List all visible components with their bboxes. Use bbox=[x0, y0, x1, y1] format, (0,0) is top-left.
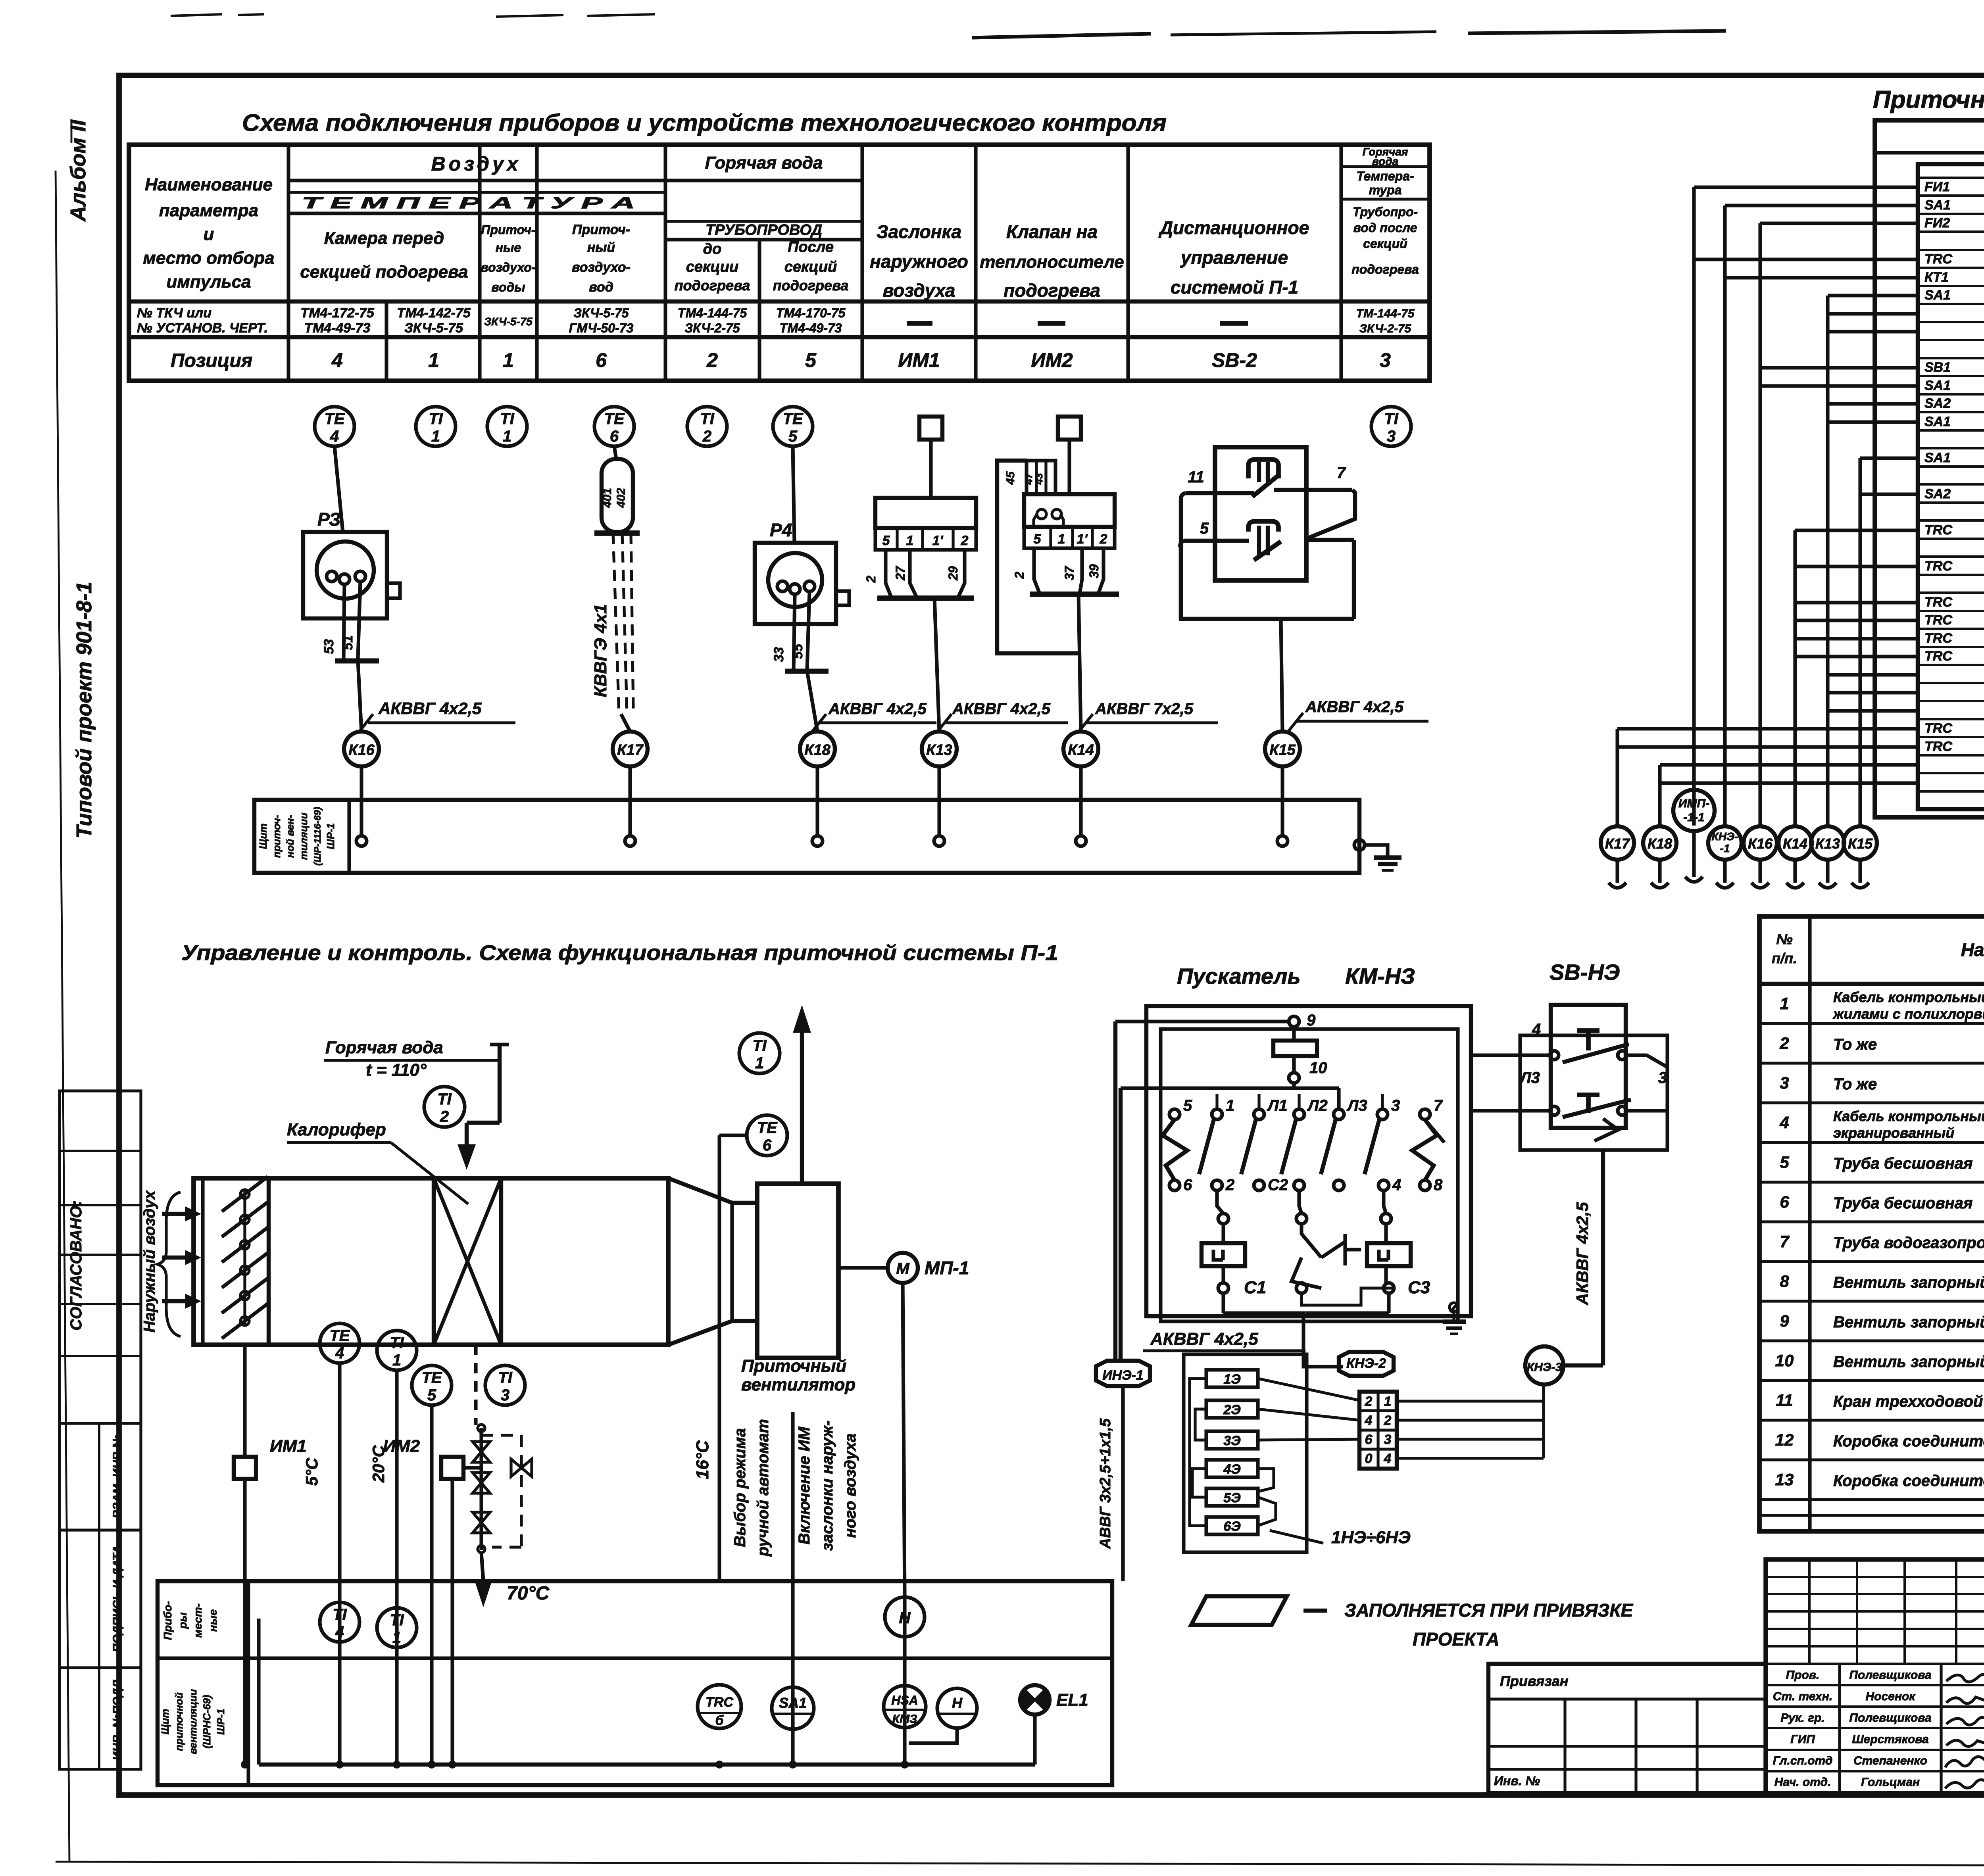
svg-text:Гольцман: Гольцман bbox=[1861, 1776, 1920, 1789]
torn page edge dashes top bbox=[171, 14, 222, 16]
svg-text:Клапан на: Клапан на bbox=[1006, 221, 1098, 242]
node 9 bbox=[1289, 1016, 1299, 1027]
svg-text:ЕL1: ЕL1 bbox=[1056, 1690, 1088, 1710]
legend parallelogram bbox=[1191, 1596, 1287, 1625]
svg-text:жилами с полихлорвиниловой: жилами с полихлорвиниловой изоляцией bbox=[1832, 1006, 1984, 1022]
duct transition to fan bbox=[668, 1178, 757, 1203]
svg-text:-1: -1 bbox=[1720, 842, 1730, 854]
svg-text:ТRС: ТRС bbox=[1924, 559, 1952, 574]
svg-text:1: 1 bbox=[503, 428, 511, 445]
svg-text:SА2: SА2 bbox=[1924, 486, 1951, 501]
svg-text:Полевщикова: Полевщикова bbox=[1849, 1669, 1931, 1682]
instrument TI2 (functional) bbox=[424, 1087, 465, 1127]
actuator IM1 square bbox=[234, 1457, 256, 1479]
svg-text:55: 55 bbox=[790, 643, 806, 659]
svg-text:Воздух: Воздух bbox=[431, 153, 521, 175]
wire SA1 down bbox=[791, 1412, 794, 1765]
svg-text:6: 6 bbox=[610, 428, 619, 445]
svg-text:2: 2 bbox=[864, 576, 878, 583]
svg-text:Приточ-: Приточ- bbox=[572, 222, 630, 237]
wires K circles to panel terminals bbox=[360, 766, 363, 836]
wire puskatel bottom to INE-2 bbox=[1303, 1321, 1343, 1367]
svg-text:70°С: 70°С bbox=[507, 1583, 550, 1604]
svg-text:ТI: ТI bbox=[1384, 410, 1398, 428]
wire TE6 to probe bbox=[614, 446, 616, 459]
svg-text:1': 1' bbox=[932, 533, 944, 548]
wire to K13 bbox=[934, 598, 939, 732]
svg-text:ТRС: ТRС bbox=[1924, 613, 1952, 628]
signature columns bbox=[1838, 1664, 1841, 1793]
svg-text:ры: ры bbox=[177, 1612, 189, 1629]
svg-text:ТRС: ТRС bbox=[1924, 721, 1952, 736]
wire TI1 down bbox=[395, 1370, 398, 1765]
contact columns bbox=[1169, 1109, 1180, 1119]
terminal strip1 body bbox=[875, 498, 976, 528]
svg-text:1: 1 bbox=[755, 1054, 764, 1072]
svg-text:1: 1 bbox=[1226, 1097, 1234, 1114]
svg-text:10: 10 bbox=[1775, 1351, 1794, 1370]
svg-text:ТI: ТI bbox=[498, 1369, 512, 1386]
svg-text:МП-1: МП-1 bbox=[925, 1258, 969, 1278]
svg-text:Пускатель: Пускатель bbox=[1177, 964, 1301, 989]
svg-text:Трубопро-: Трубопро- bbox=[1353, 205, 1418, 219]
junction circle KNE-1 bbox=[1708, 826, 1742, 860]
wires 2 37 39 from strip2 bbox=[1034, 548, 1040, 593]
svg-text:ТRС: ТRС bbox=[706, 1695, 733, 1710]
instrument TE5 bbox=[773, 407, 813, 446]
svg-text:воздуха: воздуха bbox=[883, 280, 955, 301]
svg-text:наружного: наружного bbox=[870, 251, 968, 272]
S1 wire 11 bbox=[1186, 491, 1254, 495]
svg-text:7: 7 bbox=[1780, 1232, 1790, 1251]
svg-text:ЗКЧ-5-75: ЗКЧ-5-75 bbox=[484, 315, 533, 328]
svg-text:ПОДПИСЬ И ДАТА: ПОДПИСЬ И ДАТА bbox=[111, 1545, 124, 1652]
svg-text:5: 5 bbox=[882, 533, 890, 548]
wire IM1 down bbox=[243, 1479, 246, 1765]
svg-text:КМ-НЗ: КМ-НЗ bbox=[1345, 964, 1415, 989]
svg-text:3Э: 3Э bbox=[1223, 1433, 1240, 1448]
svg-text:ТМ4-142-75: ТМ4-142-75 bbox=[397, 305, 471, 321]
svg-text:АКВВГ 4х2,5: АКВВГ 4х2,5 bbox=[952, 700, 1051, 718]
instrument TE5 (functional) bbox=[412, 1365, 452, 1405]
valve chain bbox=[478, 1425, 485, 1432]
junction circle K17 (P1) bbox=[1601, 826, 1634, 860]
svg-text:вод после: вод после bbox=[1353, 221, 1417, 235]
svg-text:2: 2 bbox=[1225, 1176, 1234, 1194]
lamp EL1 bbox=[1020, 1685, 1050, 1715]
louver section bbox=[201, 1178, 204, 1345]
svg-text:39: 39 bbox=[1087, 564, 1101, 578]
svg-text:ШР-1: ШР-1 bbox=[215, 1709, 227, 1735]
svg-text:Горячая вода: Горячая вода bbox=[705, 153, 823, 173]
svg-text:М: М bbox=[896, 1260, 910, 1277]
svg-text:Выбор режима: Выбор режима bbox=[731, 1428, 749, 1547]
svg-text:параметра: параметра bbox=[159, 201, 258, 220]
actuator command square IM1 bbox=[919, 417, 942, 440]
svg-text:ТМ4-170-75: ТМ4-170-75 bbox=[776, 306, 846, 320]
wire TE4 down bbox=[338, 1363, 341, 1765]
svg-text:Шерстякова: Шерстякова bbox=[1852, 1733, 1928, 1746]
svg-text:После: После bbox=[788, 239, 834, 255]
svg-text:9: 9 bbox=[1780, 1311, 1789, 1330]
svg-text:10: 10 bbox=[1309, 1059, 1327, 1077]
puskatel outer box bbox=[1146, 1006, 1471, 1316]
svg-text:ручной автомат: ручной автомат bbox=[754, 1419, 772, 1557]
svg-text:№ ТКЧ или: № ТКЧ или bbox=[137, 305, 211, 321]
svg-text:4: 4 bbox=[335, 1623, 344, 1641]
pressure switch box S1 bbox=[1215, 447, 1306, 580]
svg-text:ного воздуха: ного воздуха bbox=[842, 1433, 859, 1538]
svg-text:37: 37 bbox=[1062, 565, 1077, 580]
svg-text:29: 29 bbox=[946, 566, 960, 581]
junction circle KNE-3 bbox=[1525, 1346, 1563, 1384]
svg-text:Нач. отд.: Нач. отд. bbox=[1774, 1776, 1831, 1789]
svg-text:3: 3 bbox=[1780, 1073, 1789, 1092]
shielded cable KVVGE 4x1 (dashed) bbox=[613, 533, 619, 714]
svg-text:Привязан: Привязан bbox=[1500, 1673, 1569, 1689]
svg-text:3: 3 bbox=[1384, 1432, 1392, 1447]
svg-text:ные: ные bbox=[496, 240, 521, 255]
svg-text:К16: К16 bbox=[348, 742, 375, 758]
aux contact 5-6 zigzag bbox=[1163, 1119, 1187, 1180]
svg-text:Инв. №: Инв. № bbox=[1494, 1774, 1540, 1788]
svg-text:402: 402 bbox=[615, 488, 628, 508]
svg-text:К16: К16 bbox=[1748, 835, 1773, 852]
instrument TI1 (exhaust) bbox=[739, 1033, 780, 1073]
svg-text:5: 5 bbox=[805, 349, 817, 371]
svg-text:К13: К13 bbox=[926, 742, 952, 758]
svg-text:16°С: 16°С bbox=[693, 1440, 712, 1480]
title block small rows upper left bbox=[1766, 1576, 1984, 1578]
svg-text:FИ2: FИ2 bbox=[1924, 215, 1950, 230]
svg-text:ГИП: ГИП bbox=[1790, 1733, 1815, 1746]
title block frame bbox=[1766, 1559, 1984, 1793]
junction circle K18 bbox=[800, 732, 835, 766]
svg-text:воздухо-: воздухо- bbox=[481, 260, 536, 275]
svg-text:6: 6 bbox=[1780, 1192, 1789, 1211]
svg-text:Н: Н bbox=[899, 1609, 911, 1627]
svg-text:4: 4 bbox=[1532, 1021, 1541, 1038]
svg-text:1: 1 bbox=[431, 428, 440, 445]
shield loop around strip2 cable bbox=[997, 461, 1079, 653]
svg-text:Приточный: Приточный bbox=[741, 1356, 846, 1376]
svg-text:Калорифер: Калорифер bbox=[287, 1120, 386, 1139]
terminal block 2x4 bbox=[1359, 1392, 1397, 1469]
svg-text:5: 5 bbox=[1200, 520, 1209, 537]
svg-text:5Э: 5Э bbox=[1223, 1490, 1240, 1505]
svg-text:КНЭ-2: КНЭ-2 bbox=[1346, 1356, 1386, 1371]
svg-text:ТЕ: ТЕ bbox=[324, 410, 345, 428]
svg-text:SА1: SА1 bbox=[1924, 450, 1951, 465]
instrument TE6 bbox=[594, 407, 634, 446]
svg-text:ПРОЕКТА: ПРОЕКТА bbox=[1413, 1629, 1500, 1649]
svg-text:SА1: SА1 bbox=[1924, 414, 1951, 429]
svg-text:Носенок: Носенок bbox=[1865, 1690, 1916, 1703]
svg-text:АВВГ 3х2,5+1х1,5: АВВГ 3х2,5+1х1,5 bbox=[1097, 1418, 1114, 1549]
svg-text:SА1: SА1 bbox=[1924, 198, 1951, 213]
svg-text:43: 43 bbox=[1033, 473, 1045, 485]
cable tails under K circles bbox=[1615, 860, 1619, 883]
outside air brace bbox=[158, 1192, 181, 1336]
actuator IM2 square bbox=[441, 1457, 463, 1479]
svg-text:заслонки наруж-: заслонки наруж- bbox=[819, 1421, 836, 1551]
svg-text:5: 5 bbox=[1780, 1153, 1789, 1171]
sheet edge bottom bbox=[56, 1862, 1984, 1866]
svg-text:ИМ1: ИМ1 bbox=[270, 1436, 307, 1456]
svg-text:ТЕ: ТЕ bbox=[421, 1369, 442, 1386]
instrument HSA KM3 bbox=[884, 1686, 926, 1728]
svg-text:К17: К17 bbox=[1605, 835, 1630, 852]
svg-text:Включение ИМ: Включение ИМ bbox=[796, 1426, 813, 1544]
coil right bbox=[1381, 1214, 1391, 1224]
S1 wire 5 bbox=[1184, 539, 1249, 543]
svg-text:5: 5 bbox=[1034, 532, 1042, 547]
instrument TI1 (functional) bbox=[377, 1331, 417, 1370]
svg-text:ной вен-: ной вен- bbox=[284, 815, 296, 858]
wire H lower hook bbox=[909, 1728, 957, 1743]
svg-text:4: 4 bbox=[1384, 1451, 1392, 1466]
svg-text:секцией подогрева: секцией подогрева bbox=[300, 262, 468, 282]
svg-text:6: 6 bbox=[763, 1137, 772, 1154]
svg-text:13: 13 bbox=[1775, 1470, 1794, 1489]
svg-text:ЗКЧ-5-75: ЗКЧ-5-75 bbox=[404, 321, 463, 336]
svg-text:Л3: Л3 bbox=[1519, 1069, 1540, 1087]
svg-text:Вентиль запорный Ду = 3 м: Вентиль запорный Ду = 3 мм bbox=[1833, 1313, 1984, 1331]
instrument TRC 6 bbox=[698, 1685, 741, 1728]
svg-text:SА2: SА2 bbox=[1924, 396, 1951, 411]
svg-text:ЗКЧ-5-75: ЗКЧ-5-75 bbox=[573, 306, 629, 320]
S1 lower right wire bbox=[1307, 538, 1354, 542]
svg-text:Труба бесшовная: Труба бесшовная bbox=[1833, 1155, 1973, 1172]
svg-text:НSА: НSА bbox=[891, 1693, 918, 1707]
svg-text:секций: секций bbox=[784, 259, 837, 275]
svg-text:ТI: ТI bbox=[500, 410, 514, 428]
svg-text:Заслонка: Заслонка bbox=[877, 221, 961, 242]
instrument TE4 bbox=[315, 407, 354, 446]
wire INE-1 down bbox=[1121, 1386, 1125, 1581]
terminal strip1 cells 5 1 1' 2 bbox=[875, 528, 976, 550]
svg-text:ТI: ТI bbox=[700, 410, 714, 428]
svg-text:ВЗАМ. ИНВ №: ВЗАМ. ИНВ № bbox=[111, 1434, 124, 1518]
svg-text:Л2: Л2 bbox=[1307, 1097, 1328, 1114]
junction bar under strip1 bbox=[877, 595, 974, 601]
SB wires bbox=[1520, 1053, 1550, 1057]
svg-text:вентилятор: вентилятор bbox=[741, 1375, 856, 1394]
table1 frame bbox=[129, 145, 1430, 381]
svg-text:тиляции: тиляции bbox=[298, 812, 310, 860]
svg-text:2: 2 bbox=[1779, 1034, 1789, 1052]
svg-text:КВВГЭ 4х1: КВВГЭ 4х1 bbox=[591, 604, 610, 697]
svg-text:Наружный воздух: Наружный воздух bbox=[141, 1190, 158, 1333]
svg-text:АКВВГ 4х2,5: АКВВГ 4х2,5 bbox=[1150, 1329, 1258, 1349]
bypass dashed with valve bbox=[481, 1434, 521, 1436]
svg-text:вода: вода bbox=[1372, 155, 1398, 167]
instrument TI1 a bbox=[416, 407, 456, 446]
svg-text:ШР-1: ШР-1 bbox=[325, 823, 336, 849]
svg-text:Схема подключения приборов: Схема подключения приборов и устройств т… bbox=[242, 109, 1167, 136]
ShR 1116-69 box bbox=[1875, 120, 1984, 817]
wire square to strip2 bbox=[1067, 440, 1071, 494]
comb 45 47 43 above strip2 bbox=[1027, 461, 1055, 494]
svg-text:ТI: ТI bbox=[390, 1611, 404, 1629]
wires 2 27 29 from strip1 bbox=[886, 550, 891, 597]
svg-text:АКВВГ 7х2,5: АКВВГ 7х2,5 bbox=[1095, 700, 1194, 718]
junction circle K14 (P1) bbox=[1778, 826, 1812, 860]
svg-text:АКВВГ 4х2,5: АКВВГ 4х2,5 bbox=[828, 700, 927, 718]
svg-text:Горячая вода: Горячая вода bbox=[325, 1038, 443, 1057]
wire SB down to KNE-3 bbox=[1601, 1150, 1605, 1365]
panel right terminal and ground bbox=[1354, 840, 1365, 850]
SB-NE inner box bbox=[1551, 1005, 1626, 1128]
svg-text:ТЕ: ТЕ bbox=[604, 410, 625, 428]
svg-text:SВ1: SВ1 bbox=[1924, 360, 1951, 375]
junction bar under P3 bbox=[335, 659, 379, 664]
signature squiggles bbox=[1946, 1674, 1984, 1682]
junction circle K13 (P1) bbox=[1811, 826, 1844, 860]
parts table verticals bbox=[1808, 916, 1811, 1531]
heater section X bbox=[432, 1178, 436, 1345]
svg-text:1: 1 bbox=[1384, 1394, 1392, 1409]
junction circle IMP-1-1 bbox=[1673, 790, 1715, 831]
svg-text:место отбора: место отбора bbox=[143, 248, 274, 268]
svg-text:К17: К17 bbox=[617, 742, 644, 758]
junction bar under P4 bbox=[785, 669, 829, 674]
instrument TI4 (panel) bbox=[320, 1602, 360, 1642]
parts table rows bbox=[1759, 1022, 1984, 1025]
svg-text:Труба водогазопроводная: Труба водогазопроводная bbox=[1833, 1234, 1984, 1252]
instrument TI2 bbox=[687, 407, 727, 446]
svg-text:КМЗ: КМЗ bbox=[892, 1713, 917, 1726]
junction circle K13 bbox=[922, 732, 957, 766]
resistor bank left links bbox=[1195, 1409, 1206, 1440]
svg-text:ТМ4-172-75: ТМ4-172-75 bbox=[300, 305, 375, 321]
svg-text:ТRС: ТRС bbox=[1924, 252, 1952, 267]
svg-text:ТМ4-49-73: ТМ4-49-73 bbox=[780, 321, 842, 335]
svg-text:ТI: ТI bbox=[437, 1091, 452, 1108]
feeder wires left bbox=[1113, 1022, 1117, 1360]
svg-text:27: 27 bbox=[893, 565, 907, 581]
svg-text:АКВВГ 4х2,5: АКВВГ 4х2,5 bbox=[1305, 698, 1404, 716]
svg-text:2: 2 bbox=[1365, 1394, 1373, 1409]
svg-text:Кабель контрольный с медны: Кабель контрольный с медными жилами bbox=[1833, 1108, 1984, 1124]
svg-text:теплоносителе: теплоносителе bbox=[980, 252, 1124, 272]
svg-text:1: 1 bbox=[1058, 532, 1065, 547]
svg-text:4: 4 bbox=[335, 1344, 344, 1362]
svg-text:2: 2 bbox=[1100, 532, 1107, 547]
wire to node 9 bbox=[1115, 1020, 1289, 1023]
S1 contact lower (push symbol) bbox=[1248, 521, 1278, 532]
fan box bbox=[757, 1184, 838, 1358]
node 10 bbox=[1289, 1073, 1299, 1083]
svg-text:ИМП-: ИМП- bbox=[1678, 797, 1709, 810]
svg-text:С1: С1 bbox=[1244, 1278, 1266, 1297]
svg-text:приточной: приточной bbox=[173, 1692, 185, 1751]
svg-text:ИНВ. №ПОДЛ.: ИНВ. №ПОДЛ. bbox=[111, 1676, 124, 1760]
svg-text:Л1: Л1 bbox=[1267, 1097, 1288, 1114]
svg-text:Позиция: Позиция bbox=[171, 350, 252, 371]
puskatel ground bbox=[1450, 1303, 1458, 1311]
svg-text:Коробка соединительная: Коробка соединительная bbox=[1833, 1472, 1984, 1490]
probe bottom bar bbox=[594, 530, 640, 536]
label 1NE-6NE bbox=[1270, 1530, 1323, 1543]
exhaust duct up with arrow bbox=[800, 1031, 804, 1184]
wire louver to IM1 bbox=[243, 1345, 246, 1457]
svg-text:ТRС: ТRС bbox=[1924, 739, 1952, 754]
terminal table rows bbox=[1918, 177, 1984, 179]
hot water pipe bbox=[490, 1043, 509, 1046]
svg-text:3: 3 bbox=[1380, 349, 1391, 371]
wire TE4 to sensor P3 bbox=[335, 446, 343, 532]
svg-text:1: 1 bbox=[392, 1352, 401, 1369]
svg-text:Типовой проект 901-8-1: Типовой проект 901-8-1 bbox=[72, 582, 96, 839]
svg-text:FИ1: FИ1 bbox=[1924, 179, 1950, 194]
svg-text:SB-2: SB-2 bbox=[1212, 349, 1257, 371]
svg-text:ТRС: ТRС bbox=[1924, 595, 1952, 610]
svg-text:СОГЛАСОВАНО:: СОГЛАСОВАНО: bbox=[67, 1200, 85, 1331]
svg-text:5: 5 bbox=[427, 1386, 436, 1404]
panel bus box Shchit pritochnoy ventilyacii bbox=[254, 800, 1359, 873]
wire IM2 down bbox=[450, 1479, 454, 1765]
contact stems bbox=[1215, 1094, 1218, 1109]
svg-text:КНЭ-3: КНЭ-3 bbox=[1527, 1361, 1562, 1374]
aux contact 7-8 zigzag bbox=[1412, 1119, 1437, 1180]
svg-text:№: № bbox=[1776, 931, 1792, 947]
svg-text:7: 7 bbox=[1337, 464, 1346, 482]
svg-text:Труба бесшовная: Труба бесшовная bbox=[1833, 1194, 1973, 1212]
svg-text:2: 2 bbox=[440, 1108, 449, 1125]
svg-text:1: 1 bbox=[1780, 994, 1789, 1013]
sheet edge left bbox=[56, 171, 69, 1862]
svg-text:ТМ-144-75: ТМ-144-75 bbox=[1356, 307, 1415, 320]
svg-text:Дистанционное: Дистанционное bbox=[1158, 217, 1309, 238]
bus into contacts bbox=[1121, 1086, 1339, 1090]
svg-text:6Э: 6Э bbox=[1223, 1519, 1240, 1534]
svg-text:2: 2 bbox=[1384, 1413, 1392, 1428]
terminal strip2 body bbox=[1024, 494, 1115, 527]
resistor bank box bbox=[1184, 1354, 1307, 1552]
ballast resistor bbox=[1292, 1027, 1296, 1041]
motor symbol M bbox=[838, 1266, 888, 1269]
svg-text:1: 1 bbox=[906, 533, 914, 548]
junction circle K15 bbox=[1265, 732, 1300, 766]
svg-text:№ УСТАНОВ. ЧЕРТ.: № УСТАНОВ. ЧЕРТ. bbox=[137, 321, 268, 336]
svg-text:SА1: SА1 bbox=[1924, 378, 1951, 393]
instrument SA1 bbox=[772, 1687, 814, 1729]
svg-text:6: 6 bbox=[1183, 1176, 1192, 1194]
svg-text:Вентиль запорный Ду = 15: Вентиль запорный Ду = 15 мм bbox=[1833, 1353, 1984, 1371]
svg-text:ТМ4-144-75: ТМ4-144-75 bbox=[678, 306, 748, 320]
svg-text:ТРУБОПРОВОД: ТРУБОПРОВОД bbox=[706, 222, 822, 238]
svg-text:То же: То же bbox=[1833, 1036, 1877, 1053]
resistor bank right links bbox=[1258, 1379, 1359, 1400]
svg-text:Темпера-: Темпера- bbox=[1356, 169, 1414, 183]
svg-text:SА1: SА1 bbox=[1924, 288, 1951, 303]
svg-text:3: 3 bbox=[1387, 428, 1396, 445]
svg-text:системой П-1: системой П-1 bbox=[1171, 277, 1298, 298]
svg-text:0: 0 bbox=[1365, 1451, 1373, 1466]
svg-text:ТЕ: ТЕ bbox=[329, 1327, 350, 1344]
svg-text:Н: Н bbox=[952, 1695, 963, 1711]
wire EL1 down bbox=[1033, 1715, 1036, 1765]
parts table header bbox=[1759, 982, 1984, 986]
wire to K14 bbox=[1079, 594, 1081, 732]
svg-text:Полевщикова: Полевщикова bbox=[1849, 1711, 1931, 1724]
svg-text:1НЭ÷6НЭ: 1НЭ÷6НЭ bbox=[1331, 1528, 1411, 1547]
svg-text:вентиляции: вентиляции bbox=[187, 1689, 199, 1754]
svg-text:Управление и контроль. Схе: Управление и контроль. Схема функциональ… bbox=[181, 941, 1058, 965]
svg-text:до: до bbox=[703, 241, 722, 257]
svg-text:3: 3 bbox=[1658, 1069, 1667, 1087]
